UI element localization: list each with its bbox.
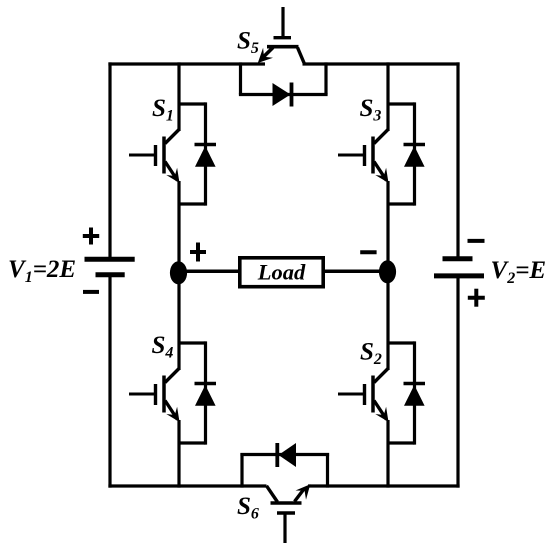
transistor S2 (IGBT) [338, 368, 389, 422]
diode: S2 antiparallel diode (cathode up) [404, 384, 426, 406]
diode: S3 antiparallel diode (cathode up) [404, 145, 426, 167]
wire: left rail upper segment [108, 62, 111, 258]
svg-text:S6: S6 [237, 493, 259, 523]
battery V2 short plate (-) [443, 256, 473, 261]
wire: S4 branch collector-side wire [177, 272, 180, 370]
battery V1 short plate (-) [96, 272, 125, 277]
wire: load to right node [324, 269, 388, 273]
battery V2 long plate (+) [434, 273, 484, 278]
transistor S4 (IGBT) [129, 368, 180, 422]
transistor S3 (IGBT) [338, 129, 389, 183]
wire: S1 diode branch vertical [204, 102, 207, 205]
wire: S5 bypass loop bottom [239, 93, 328, 96]
label: - polarity of V1 [83, 290, 99, 294]
wire: S2 diode loop bottom stub [387, 441, 415, 444]
wire: S1 branch emitter-side wire [177, 181, 180, 274]
svg-text:S3: S3 [360, 95, 382, 125]
wire: S4 diode loop top stub [178, 341, 206, 344]
wire: S6 bypass loop left vertical [240, 453, 243, 488]
battery V1 long plate (+) [85, 257, 135, 262]
wire: left rail lower segment [108, 276, 111, 488]
node: right output node (filled junction dot) [379, 260, 396, 283]
diode: S6 series bypass diode (pointing left) [277, 443, 296, 467]
label: - polarity at right node [360, 250, 376, 254]
wire: S6 bypass loop right vertical [326, 453, 329, 488]
wire: top rail right segment [303, 62, 460, 65]
wire: S2 branch emitter-side wire [386, 420, 389, 488]
wire: S3 diode branch vertical [413, 102, 416, 205]
wire: bottom rail right segment [308, 484, 460, 487]
svg-text:S1: S1 [152, 95, 174, 125]
svg-text:Load: Load [257, 260, 306, 285]
svg-text:V1=2E: V1=2E [8, 256, 76, 286]
label: - polarity of V2 [468, 239, 485, 243]
svg-text:V2=E: V2=E [491, 257, 547, 287]
wire: S2 diode branch vertical [413, 341, 416, 444]
load box [240, 258, 323, 287]
wire: S1 diode loop bottom stub [178, 202, 206, 205]
diode: S1 antiparallel diode (cathode up) [195, 145, 217, 167]
wire: S4 diode loop bottom stub [178, 441, 206, 444]
wire: S5 bypass loop right vertical [324, 62, 327, 94]
wire: S5 bypass loop left vertical [239, 62, 242, 94]
wire: top rail left segment [108, 62, 265, 65]
wire: S2 branch collector-side wire [386, 272, 389, 370]
svg-text:S5: S5 [237, 28, 259, 58]
wire: left node to load [179, 269, 241, 273]
transistor S6 (IGBT, series in bottom rail) [267, 484, 311, 543]
wire: S2 diode loop top stub [387, 341, 415, 344]
wire: S1 branch collector-side wire [177, 62, 180, 131]
label: + polarity at left node [190, 243, 206, 262]
wire: S4 diode branch vertical [204, 341, 207, 444]
node: left output node (filled junction dot) [170, 261, 187, 284]
wire: S1 diode loop top stub [178, 102, 206, 105]
svg-text:S2: S2 [360, 339, 382, 369]
wire: S3 diode loop bottom stub [387, 202, 415, 205]
wire: S3 branch emitter-side wire [386, 181, 389, 274]
label: + polarity of V1 [83, 228, 99, 245]
wire: right rail lower segment [456, 277, 459, 488]
transistor S1 (IGBT) [129, 129, 180, 183]
wire: S6 bypass loop top [240, 453, 329, 456]
wire: right rail upper segment [456, 62, 459, 257]
label: + polarity of V2 [468, 289, 485, 307]
wire: S3 branch collector-side wire [386, 62, 389, 131]
wire: S3 diode loop top stub [387, 102, 415, 105]
wire: S4 branch emitter-side wire [177, 420, 180, 488]
wire: bottom rail left segment [108, 484, 266, 487]
svg-text:S4: S4 [152, 332, 174, 362]
diode: S5 series bypass diode (pointing right) [273, 83, 292, 107]
diode: S4 antiparallel diode (cathode up) [195, 384, 217, 406]
transistor S5 (IGBT, series in top rail) [258, 7, 305, 64]
